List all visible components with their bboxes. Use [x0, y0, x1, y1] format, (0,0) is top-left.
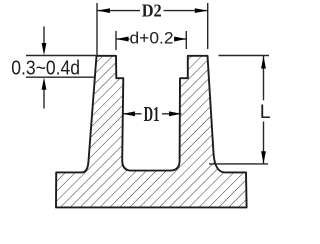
extension tick right d+0.2 [185, 31, 187, 49]
arrowhead L top [261, 56, 266, 69]
dimension line D1 [123, 113, 142, 115]
extension line right D2 [207, 3, 209, 49]
extension line bottom [26, 76, 96, 78]
svg-text:L: L [260, 101, 271, 123]
dimension line L upper [263, 56, 265, 101]
dimension line L lower [263, 122, 265, 164]
dimension L [209, 56, 269, 164]
arrow stem bottom [43, 89, 45, 109]
extension tick left d+0.2 [115, 31, 117, 50]
dimension line D2 [97, 10, 140, 12]
arrowhead D1 right [169, 111, 181, 116]
extension line top L [219, 55, 270, 57]
arrowhead D2 right [195, 8, 208, 13]
svg-text:d+0.2: d+0.2 [130, 29, 174, 47]
dimension 0.3~0.4d [26, 27, 97, 109]
dimension D1 [123, 113, 182, 115]
svg-text:0.3~0.4d: 0.3~0.4d [11, 58, 80, 80]
arrowhead d+0.2 right [174, 37, 186, 42]
arrowhead d+0.2 left [116, 37, 128, 42]
extension line top [26, 55, 97, 57]
arrowhead D1 left [123, 111, 135, 116]
dimension d+0.2 [116, 31, 186, 50]
dimension D2 [97, 3, 208, 56]
dimension line d+0.2 [116, 38, 130, 40]
arrowhead L bottom [261, 151, 266, 164]
extension line left D2 [96, 3, 98, 56]
svg-text:D1: D1 [144, 102, 160, 126]
extension line bottom L [209, 163, 268, 165]
arrow stem top [43, 27, 45, 45]
svg-text:D2: D2 [142, 1, 162, 21]
arrowhead up (bottom) [42, 77, 47, 89]
part cross-section outline with hatching [56, 56, 247, 208]
arrowhead D2 left [97, 8, 110, 13]
arrowhead down (top) [42, 43, 47, 55]
